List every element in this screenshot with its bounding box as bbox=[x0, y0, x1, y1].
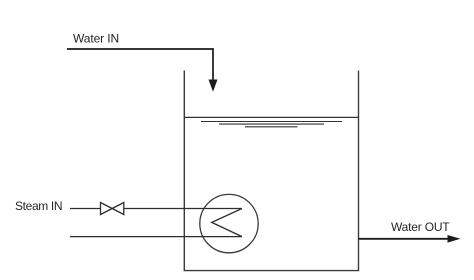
water surface mark 4 bbox=[245, 126, 298, 128]
tank T1 bbox=[184, 71, 358, 271]
svg-text:Steam IN: Steam IN bbox=[15, 199, 62, 213]
coil zigzag bbox=[212, 209, 242, 237]
wire: condensate return line bbox=[70, 236, 242, 238]
water inlet arrowhead bbox=[209, 80, 218, 92]
wire: water outlet pipe bbox=[359, 238, 450, 240]
water outlet arrowhead bbox=[448, 235, 461, 243]
water surface level line bbox=[184, 116, 358, 118]
water surface mark 2 bbox=[201, 121, 342, 123]
valve V1 bbox=[101, 203, 124, 215]
wire: steam line from valve to coil bbox=[124, 208, 242, 210]
heating coil circle E1 bbox=[200, 194, 258, 252]
wire: water inlet pipe bbox=[67, 49, 213, 81]
wire: steam inlet line bbox=[70, 208, 101, 210]
svg-text:Water IN: Water IN bbox=[73, 32, 119, 46]
water surface mark 3 bbox=[219, 123, 324, 125]
svg-text:Water OUT: Water OUT bbox=[391, 220, 450, 234]
